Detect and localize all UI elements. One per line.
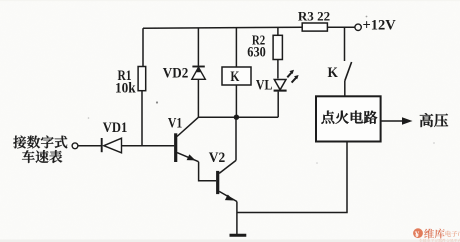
svg-text:K: K bbox=[328, 65, 339, 81]
wire VD1 to V1 base bbox=[122, 145, 175, 147]
svg-text:V1: V1 bbox=[168, 116, 182, 132]
svg-text:10k: 10k bbox=[115, 80, 136, 96]
wire VD2 to collector node bbox=[197, 79, 199, 117]
wire VD2 branch from rail bbox=[197, 28, 199, 66]
wire R1 branch from rail bbox=[142, 28, 144, 66]
wire V2 collector to junction bbox=[235, 117, 237, 160]
wire V2 emitter to ground bbox=[236, 202, 238, 235]
node 接数字式车速表 label bbox=[13, 136, 67, 164]
wire from ignition box bottom to V2 emitter node bbox=[237, 142, 347, 213]
relay coil K bbox=[222, 67, 251, 85]
wire R1 to base node bbox=[141, 91, 143, 146]
svg-text:¥: ¥ bbox=[415, 229, 420, 239]
diode VD2 bbox=[163, 66, 206, 82]
wire top +12V rail bbox=[143, 27, 302, 28]
LED VL bbox=[256, 70, 299, 94]
ignition circuit box 点火电路 bbox=[316, 96, 381, 141]
svg-text:VD1: VD1 bbox=[103, 120, 128, 136]
wire relay coil branch from rail bbox=[235, 28, 237, 67]
arrow to high voltage output bbox=[381, 117, 413, 124]
node 高压 (high voltage) label bbox=[420, 113, 448, 127]
diode VD1 bbox=[102, 120, 128, 153]
terminal input from speedometer bbox=[72, 143, 78, 149]
wire V1 emitter to V2 base bbox=[199, 162, 217, 181]
wire collector node horizontal bbox=[198, 116, 278, 118]
wire R2 branch from rail bbox=[277, 28, 279, 36]
svg-text:V2: V2 bbox=[209, 150, 225, 166]
resistor R1 bbox=[115, 67, 146, 97]
svg-text:VL: VL bbox=[256, 77, 273, 93]
junction collector node bbox=[234, 115, 239, 120]
svg-text:VD2: VD2 bbox=[163, 66, 189, 82]
transistor V2 bbox=[209, 150, 237, 202]
ground bbox=[230, 234, 247, 237]
wire from rail down to switch K bbox=[344, 27, 346, 61]
wire R2 to LED VL bbox=[277, 60, 279, 79]
switch K bbox=[328, 62, 352, 96]
wire coil K to collector node bbox=[235, 85, 237, 117]
svg-text:K: K bbox=[230, 69, 239, 85]
transistor V1 bbox=[168, 116, 199, 162]
wire rail from R3 to +12V terminal bbox=[327, 26, 355, 28]
svg-text:630: 630 bbox=[247, 44, 265, 60]
terminal +12V bbox=[355, 18, 396, 34]
wire LED VL to collector node bbox=[277, 92, 279, 118]
svg-text:+12V: +12V bbox=[363, 18, 397, 34]
watermark logo 维库电子市场网 bbox=[413, 228, 460, 242]
wire input terminal to VD1 bbox=[78, 145, 102, 147]
svg-text:R3 22: R3 22 bbox=[298, 8, 330, 23]
resistor R3 bbox=[298, 8, 330, 31]
resistor R2 bbox=[247, 34, 282, 61]
